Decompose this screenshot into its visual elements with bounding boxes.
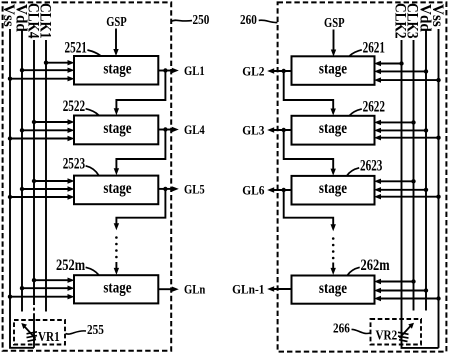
wire cascade U1 to U2 [116, 71, 165, 110]
leader to 255 [66, 331, 87, 334]
svg-text:GSP: GSP [106, 14, 127, 29]
leader 2523 [86, 166, 99, 175]
panel 260 dashed border [278, 2, 447, 351]
junction node stage U7 output [282, 188, 286, 192]
svg-text:GL4: GL4 [184, 122, 205, 137]
junction on CLK3 bus (right) [411, 120, 415, 124]
leader 2521 [87, 50, 100, 56]
svg-text:GL5: GL5 [184, 181, 205, 196]
VR2 variable arrow [400, 326, 411, 338]
junction on CLK4 bus [32, 278, 36, 282]
junction on CLK4 bus [32, 179, 36, 183]
svg-text:GL1: GL1 [184, 63, 205, 78]
VR2 wiper hatches [398, 332, 409, 334]
junction on Vss bus (right) [436, 195, 440, 199]
junction node stage U3 output [163, 187, 167, 191]
svg-text:stage: stage [319, 61, 347, 78]
junction on Vss bus [8, 77, 12, 81]
leader 2623 [347, 168, 359, 176]
wire Vss to stage U4 input [10, 296, 69, 298]
svg-text:GLn-1: GLn-1 [232, 282, 264, 297]
wire CLK3 to stage U7 input [380, 180, 414, 182]
svg-text:GSP: GSP [324, 15, 345, 30]
wire Vdd to stage U8 input [380, 290, 427, 292]
junction on Vdd bus [20, 128, 24, 132]
component VR2 dashed box [371, 319, 422, 345]
stage U4 box (left, 252m) [74, 275, 158, 303]
wire Vdd to stage U6 input [380, 129, 427, 131]
wire Vss to stage U6 input [380, 137, 439, 139]
junction on Vss bus (right) [436, 136, 440, 140]
wire stage U2 output to GL4 [158, 129, 172, 131]
wire stage U8 output to GLn-1 [273, 288, 292, 290]
wire cascade U2 to U3 [116, 130, 165, 170]
junction on CLK3 bus (right) [411, 179, 415, 183]
wire Vdd bus (right) [425, 30, 427, 311]
wire CLK4 to stage U2 input [34, 121, 69, 123]
svg-text:GL2: GL2 [242, 64, 264, 79]
wire stage U4 output to GLn [158, 288, 172, 290]
junction on Vdd bus (right) [424, 188, 428, 192]
leader 2621 [350, 50, 362, 56]
junction on CLK3 bus (right) [411, 279, 415, 283]
VR1 wiper hatches [27, 332, 38, 334]
wire CLK2 to stage U5 input [380, 63, 402, 65]
wire CLK4 to stage U3 input [34, 180, 69, 182]
junction on Vdd bus (right) [424, 288, 428, 292]
continuation dots (right) [332, 237, 335, 240]
panel 250 dashed border [3, 2, 172, 350]
junction on Vdd bus (right) [424, 128, 428, 132]
junction node stage U6 output [282, 128, 286, 132]
svg-text:2521: 2521 [65, 39, 87, 56]
wire Vss bus (right) [438, 29, 440, 348]
svg-text:CLK1: CLK1 [36, 3, 53, 39]
svg-text:VR2: VR2 [376, 327, 398, 342]
svg-text:GL6: GL6 [242, 183, 264, 198]
wire Vss to stage U1 input [10, 78, 69, 80]
wire GSP (right) [333, 30, 335, 52]
svg-text:GL3: GL3 [242, 123, 264, 138]
wire Vss bus (left) [10, 29, 34, 348]
svg-text:250: 250 [193, 12, 210, 27]
stage U6 box (right, 2622) [292, 116, 375, 145]
wire stage U6 output to GL3 [273, 129, 292, 131]
continuation dots (left) [115, 236, 118, 239]
leader 252m [86, 267, 99, 275]
stage U2 box (left, 2522) [74, 116, 158, 145]
svg-text:stage: stage [103, 280, 131, 297]
svg-text:stage: stage [319, 280, 347, 297]
leader 2622 [350, 109, 362, 116]
wire into stage U4 top [115, 262, 117, 269]
wire into stage U8 top [332, 263, 334, 269]
wire Vss to stage U3 input [10, 196, 69, 198]
svg-text:266: 266 [333, 321, 350, 336]
stage U5 box (right, 2621) [292, 56, 375, 85]
junction node stage U2 output [163, 127, 167, 131]
junction on CLK1 bus [44, 61, 48, 65]
wire CLK3 to stage U8 input [380, 281, 414, 283]
wire CLK3 bus (right) [413, 40, 415, 311]
wire Vdd to stage U1 input [22, 69, 69, 71]
junction on Vdd bus [20, 187, 24, 191]
svg-text:stage: stage [319, 120, 347, 137]
stage U3 box (left, 2523) [74, 176, 158, 205]
junction on CLK4 bus [32, 120, 36, 124]
junction on Vss bus [8, 136, 12, 140]
wire Vdd to stage U4 input [22, 287, 69, 289]
junction on Vdd bus [20, 286, 24, 290]
svg-text:260: 260 [240, 12, 257, 27]
stage U1 box (left, 2521) [74, 56, 158, 85]
wire Vdd bus (left) [21, 30, 23, 312]
svg-text:Vss: Vss [429, 4, 446, 27]
leader 2522 [86, 109, 99, 115]
wire cascade U3 to U4 (with continuation dots) [116, 189, 165, 224]
wire CLK1 to stage U1 input [46, 62, 69, 64]
component VR1 dashed box [14, 320, 65, 345]
leader to 260 [259, 20, 278, 22]
svg-text:stage: stage [103, 60, 131, 77]
svg-text:2522: 2522 [63, 97, 85, 114]
junction on Vdd bus [20, 68, 24, 72]
wire Vdd to stage U7 input [380, 189, 427, 191]
wire Vss to stage U2 input [10, 138, 69, 140]
wire cascade U5 to U6 [284, 71, 334, 110]
wire CLK1 bus (left) [45, 40, 47, 312]
junction on Vss bus [8, 195, 12, 199]
wire GSP (left) [115, 29, 117, 51]
junction on CLK2 bus (right) [399, 61, 403, 65]
wire Vss to stage U7 input [380, 196, 439, 198]
wire cascade U6 to U7 [284, 130, 334, 170]
junction on Vss bus [8, 295, 12, 299]
svg-text:VR1: VR1 [38, 329, 60, 344]
svg-text:2621: 2621 [363, 38, 385, 55]
wire cascade U7 to U8 (with continuation dots) [284, 190, 334, 225]
wire CLK3 to stage U6 input [380, 121, 414, 123]
wire CLK2 bus (right) [402, 40, 439, 348]
wire Vdd to stage U5 input [380, 70, 427, 72]
svg-text:255: 255 [87, 322, 104, 337]
wire Vss to stage U5 input [380, 79, 439, 81]
wire Vdd to stage U3 input [22, 188, 69, 190]
svg-text:2523: 2523 [63, 154, 85, 171]
wire CLK4 to stage U4 input [34, 279, 69, 281]
wire Vdd to stage U2 input [22, 129, 69, 131]
VR1 variable arrow [25, 327, 36, 339]
junction on Vss bus (right) [436, 78, 440, 82]
svg-text:2622: 2622 [363, 97, 385, 114]
wire Vss to stage U8 input [380, 298, 439, 300]
svg-text:stage: stage [103, 120, 131, 137]
leader 262m [348, 267, 360, 275]
svg-text:2623: 2623 [360, 156, 382, 173]
svg-text:252m: 252m [56, 256, 85, 274]
wire stage U7 output to GL6 [273, 189, 292, 191]
stage U8 box (right, 262m) [292, 276, 375, 304]
svg-text:stage: stage [319, 180, 347, 197]
svg-text:262m: 262m [361, 256, 390, 274]
stage U7 box (right, 2623) [292, 176, 375, 205]
wire stage U3 output to GL5 [158, 188, 172, 190]
leader to 266 [352, 329, 371, 333]
junction node stage U1 output [163, 68, 167, 72]
wire CLK4 bus (left) [33, 40, 35, 302]
wire stage U1 output to GL1 [158, 70, 172, 72]
junction on Vdd bus (right) [424, 69, 428, 73]
junction node stage U5 output [282, 69, 286, 73]
svg-text:GLn: GLn [184, 282, 206, 297]
junction on Vss bus (right) [436, 296, 440, 300]
svg-text:stage: stage [103, 180, 131, 197]
wire stage U5 output to GL2 [273, 70, 292, 72]
leader to 250 [172, 19, 192, 22]
